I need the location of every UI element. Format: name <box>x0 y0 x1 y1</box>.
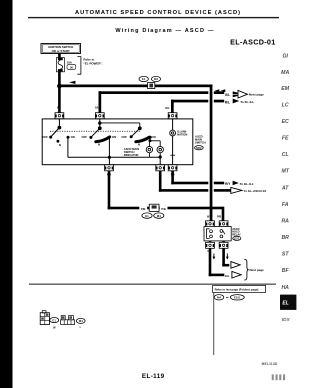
svg-text:HA: HA <box>281 285 289 291</box>
svg-text:ON: ON <box>71 135 75 139</box>
svg-text:To EL-ASCD-04: To EL-ASCD-04 <box>244 189 267 193</box>
svg-text:EL: EL <box>282 301 288 307</box>
svg-text:M52: M52 <box>196 146 202 150</box>
svg-text:EC: EC <box>282 119 289 125</box>
svg-text:AUTOMATIC SPEED CONTROL DEVICE: AUTOMATIC SPEED CONTROL DEVICE (ASCD) <box>75 10 241 16</box>
svg-text:E1: E1 <box>52 318 56 322</box>
svg-text:EL-119: EL-119 <box>142 373 165 380</box>
svg-text:G/L: G/L <box>95 105 100 109</box>
svg-text:ON: ON <box>151 135 155 139</box>
svg-text:ON: ON <box>112 135 116 139</box>
svg-text:MT: MT <box>281 169 289 175</box>
svg-text:R/L: R/L <box>225 100 230 104</box>
svg-text:Wiring Diagram — ASCD —: Wiring Diagram — ASCD — <box>115 28 214 34</box>
svg-text:E101: E101 <box>234 296 241 300</box>
svg-text:Refer to last page (Foldout pa: Refer to last page (Foldout page). <box>215 287 260 291</box>
svg-text:BF: BF <box>282 268 290 274</box>
svg-text:MEL113D: MEL113D <box>262 362 278 366</box>
svg-text:OFF: OFF <box>121 135 127 139</box>
svg-text:N: N <box>98 142 100 146</box>
svg-text:N: N <box>59 143 61 147</box>
svg-text:E1: E1 <box>142 77 146 81</box>
svg-text:P/B: P/B <box>161 207 165 211</box>
svg-text:CL: CL <box>282 152 289 158</box>
svg-text:M4: M4 <box>217 296 221 300</box>
svg-text:P/B: P/B <box>141 207 145 211</box>
svg-text:R/L: R/L <box>165 106 170 110</box>
svg-text:Next page: Next page <box>249 93 264 97</box>
svg-text:M4: M4 <box>79 319 83 323</box>
svg-text:Next page: Next page <box>250 268 265 272</box>
svg-text:E1: E1 <box>145 214 149 218</box>
svg-text:M4: M4 <box>154 77 158 81</box>
svg-text:P/B: P/B <box>217 216 221 219</box>
svg-text:MA: MA <box>281 70 289 76</box>
svg-text:NATION: NATION <box>177 133 187 137</box>
svg-text:G/L: G/L <box>225 274 230 278</box>
svg-text:10A: 10A <box>67 60 73 64</box>
svg-text:IDX: IDX <box>282 317 291 323</box>
svg-text:OFF: OFF <box>82 135 88 139</box>
svg-text:To EL-ILL: To EL-ILL <box>240 100 254 104</box>
svg-text:EL-ASCD-01: EL-ASCD-01 <box>230 38 275 47</box>
svg-text:BR: BR <box>281 235 289 241</box>
svg-text:N: N <box>138 143 140 147</box>
svg-text:LC: LC <box>282 103 289 109</box>
svg-text:ST: ST <box>282 252 289 258</box>
svg-text:INDICATOR: INDICATOR <box>124 153 139 157</box>
svg-text:OFF: OFF <box>42 135 48 139</box>
svg-text:“EL-POWER”.: “EL-POWER”. <box>83 61 102 65</box>
svg-text:GI: GI <box>282 53 288 59</box>
svg-text:G/L: G/L <box>225 93 230 97</box>
svg-text:EM: EM <box>281 86 289 92</box>
svg-text:RA: RA <box>281 219 289 225</box>
svg-text:To EL-ILL: To EL-ILL <box>240 182 254 186</box>
svg-text:FE: FE <box>282 136 289 142</box>
svg-text:AT: AT <box>281 186 289 192</box>
svg-text:R/Y: R/Y <box>225 182 231 186</box>
svg-text:ON or START: ON or START <box>52 49 70 53</box>
svg-text:36: 36 <box>70 65 74 69</box>
svg-text:E57: E57 <box>234 236 239 240</box>
svg-text:M4: M4 <box>157 214 161 218</box>
svg-text:FA: FA <box>282 202 289 208</box>
svg-text:SWITCH: SWITCH <box>195 140 206 144</box>
